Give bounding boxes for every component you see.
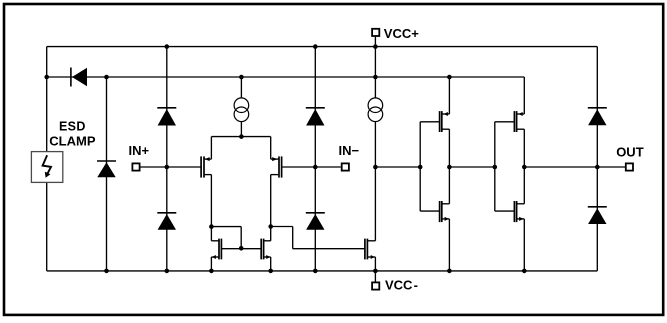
svg-text:ESD: ESD bbox=[59, 119, 86, 133]
svg-text:IN+: IN+ bbox=[129, 143, 150, 158]
svg-text:OUT: OUT bbox=[616, 144, 644, 159]
svg-text:CLAMP: CLAMP bbox=[49, 133, 96, 148]
svg-text:IN−: IN− bbox=[339, 143, 360, 158]
svg-text:VCC+: VCC+ bbox=[384, 26, 419, 41]
svg-text:VCC-: VCC- bbox=[385, 278, 418, 293]
